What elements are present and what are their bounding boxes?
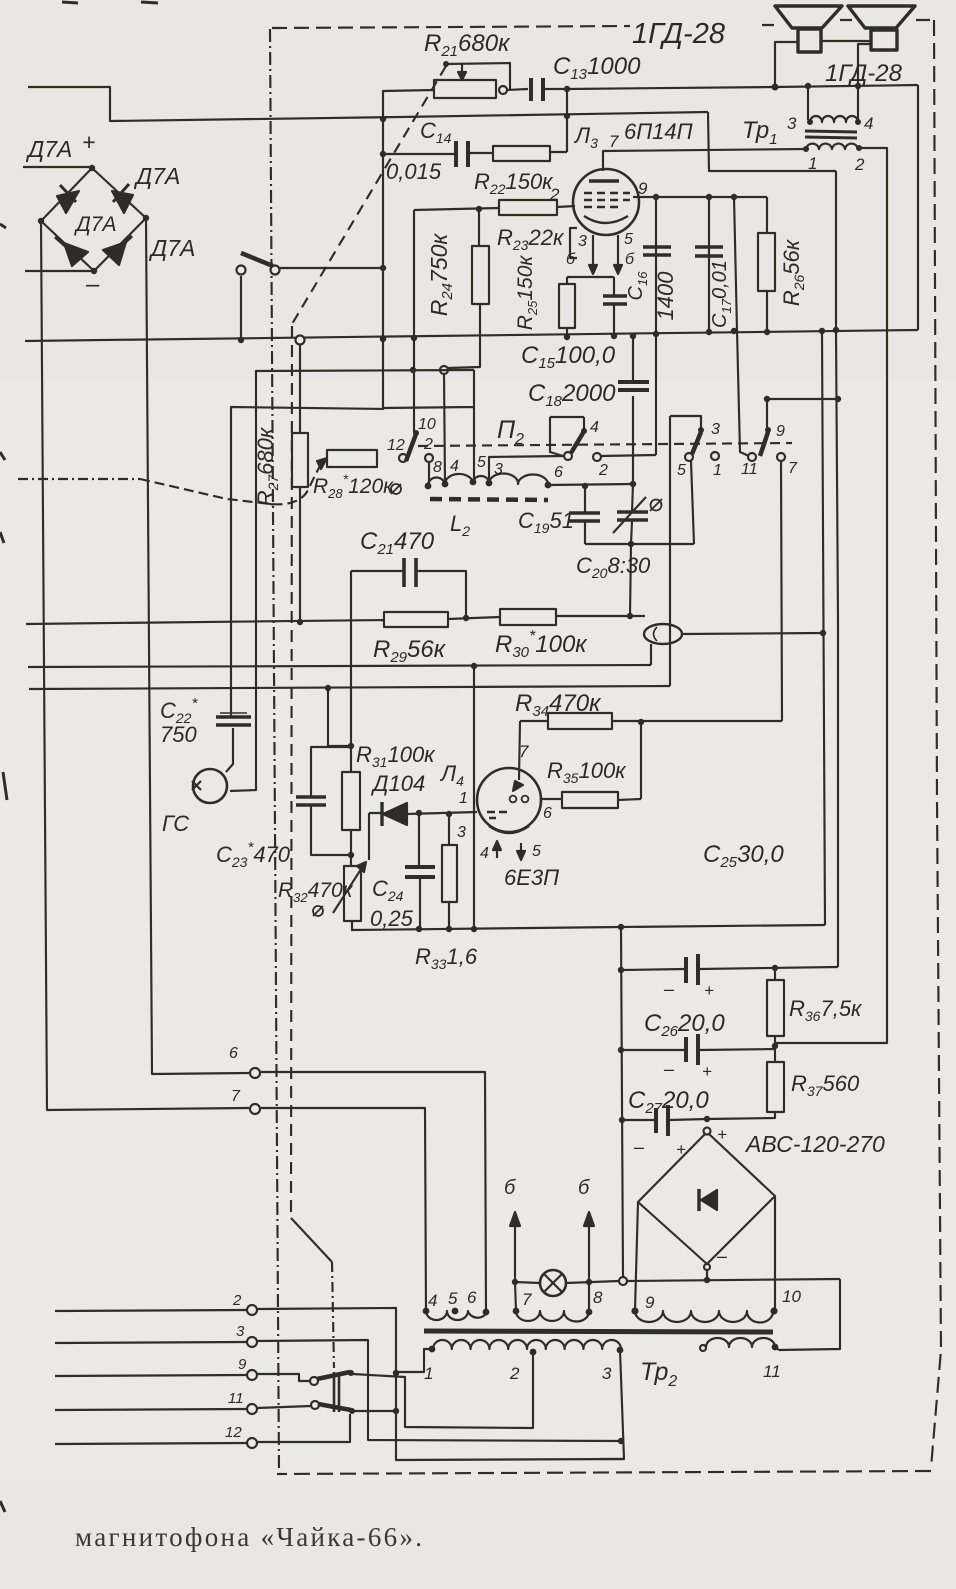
wire C14 chain	[383, 153, 456, 155]
motor switch link bars	[334, 1372, 339, 1412]
junction Tr1-3 riser on bus	[805, 83, 811, 89]
wire terminal8 riser	[588, 1281, 590, 1311]
wire contact2 to C16 column	[601, 455, 656, 456]
wire speaker2 left lead down	[858, 44, 871, 86]
terminal circle 6	[250, 1068, 260, 1078]
capacitor C16 with column to switch wire	[655, 197, 657, 455]
rotor hatch on C22	[220, 712, 247, 714]
wire lower blade to row2 drop	[352, 1410, 396, 1412]
wire grid column down to contact 10	[413, 210, 415, 432]
svg-text:+: +	[717, 1125, 727, 1144]
wire C13 to top bus	[545, 85, 918, 89]
svg-text:6: 6	[229, 1045, 238, 1062]
svg-text:10: 10	[782, 1287, 801, 1306]
wire grid column of L4	[473, 666, 475, 929]
svg-text:1: 1	[459, 790, 468, 807]
bottom row of L4 stage	[351, 927, 621, 930]
switch P2 sec3 box	[670, 416, 701, 428]
junction C18-C20 node	[630, 481, 636, 487]
resistor R36	[767, 980, 784, 1036]
junction P1 drop on row A	[238, 337, 244, 343]
L2 dashed core	[430, 499, 548, 500]
svg-text:C2620,0: C2620,0	[644, 1010, 725, 1040]
chassis dashed top border right stub	[762, 20, 934, 25]
svg-text:1: 1	[713, 462, 722, 479]
svg-text:Д7А: Д7А	[148, 235, 195, 261]
junction bridge right	[143, 215, 149, 221]
junction speaker drop on top bus	[772, 84, 779, 91]
L4 inner dashes	[487, 812, 507, 818]
junction C20 bottom	[628, 541, 634, 547]
svg-text:R2322к: R2322к	[497, 225, 565, 253]
junction C16 on row A	[653, 331, 659, 337]
terminal row 2	[55, 1310, 247, 1311]
junction L2 taps	[425, 483, 432, 490]
junction rung at 567	[564, 113, 570, 119]
resistor R37	[767, 1062, 784, 1112]
switch P2 sec3 contact 1	[711, 452, 719, 460]
svg-text:+: +	[82, 129, 95, 155]
terminal row 11	[55, 1409, 247, 1410]
svg-text:C170,01: C170,01	[709, 260, 734, 328]
junction grid column on row A	[411, 335, 417, 341]
switch P2 sec2 box	[550, 417, 584, 456]
junction B column on row A	[833, 327, 839, 333]
svg-text:–: –	[663, 979, 675, 999]
switch P2 sec1 contact 12	[399, 454, 407, 462]
junction R36 bottom node	[772, 1043, 778, 1049]
R21 wiper arm and loop	[446, 63, 510, 89]
tube L4 6E3P circle	[477, 768, 541, 832]
svg-text:3: 3	[457, 824, 466, 841]
transformer Tr2 core	[424, 1331, 773, 1332]
motor switch lower blade	[311, 1401, 319, 1409]
mech dashed link to R28 trimmer	[140, 464, 321, 504]
switch P1 mains right contact	[271, 266, 280, 275]
switch P2 sec1 contact 8	[425, 454, 433, 462]
diode D7A top-right	[112, 191, 133, 213]
svg-text:11: 11	[228, 1390, 244, 1407]
svg-text:ГС: ГС	[162, 811, 189, 836]
mech dash-dot link to motor switch	[332, 1262, 334, 1368]
junction on column A	[820, 630, 826, 636]
svg-text:R37560: R37560	[791, 1071, 860, 1099]
wire R24 bottom to contact 4 circle	[448, 304, 480, 368]
svg-text:б: б	[578, 1177, 590, 1199]
wire contact7 down to R34 row	[781, 461, 782, 721]
junction C17 top	[706, 194, 712, 200]
switch P2 sec2 contact 6	[564, 452, 572, 460]
junction row A on R21 column	[380, 336, 386, 342]
L3 pin5 lead arrow	[617, 235, 619, 268]
row A main horizontal bus	[25, 330, 918, 341]
mech link diagonal to motor switch	[291, 1218, 332, 1262]
capacitor C14	[456, 141, 468, 167]
selenium bridge ABC-120-270	[704, 1128, 711, 1135]
wire R32 wiper to D104	[368, 813, 370, 860]
GS cross mark	[192, 781, 201, 790]
svg-text:5: 5	[677, 462, 686, 479]
diode D7A bottom-left	[64, 243, 88, 266]
svg-text:3: 3	[578, 233, 587, 250]
svg-text:C2530,0: C2530,0	[703, 841, 784, 871]
svg-text:2: 2	[598, 462, 608, 479]
svg-text:6: 6	[467, 1288, 477, 1307]
wire L2 tap3 to sec2 contact 6	[489, 456, 564, 483]
row B horizontal	[28, 665, 651, 667]
junction C17 on row A	[706, 329, 712, 335]
L3 cathode arc	[584, 216, 628, 223]
transformer Tr1 secondary coil 3-4	[810, 116, 858, 122]
switch P2 sec4 jog to B column	[767, 399, 838, 429]
filament arrow b left	[514, 1224, 516, 1282]
wire rung corner down to screen rung	[708, 112, 836, 171]
svg-text:Д7А: Д7А	[74, 213, 116, 236]
svg-text:R2656к: R2656к	[779, 238, 807, 306]
arrowhead into R28	[317, 458, 327, 469]
junction C13 node	[564, 86, 570, 92]
svg-text:R2956к: R2956к	[373, 636, 447, 666]
wire Tr1 terminal4 riser	[857, 86, 859, 120]
wire GS line y370	[256, 370, 474, 371]
wire D104 to L4 grid	[369, 812, 477, 814]
resistor R32 trimmer	[344, 866, 361, 921]
loudspeaker 1 magnet box	[798, 29, 821, 52]
svg-text:4: 4	[450, 458, 459, 475]
svg-text:R35100к: R35100к	[547, 758, 627, 786]
svg-text:R22150к: R22150к	[474, 169, 554, 197]
svg-text:1: 1	[424, 1364, 433, 1383]
svg-text:2: 2	[423, 436, 433, 453]
wire C22 bottom to GS	[226, 728, 233, 772]
junction C19 top	[582, 483, 588, 489]
svg-text:АВС-120-270: АВС-120-270	[744, 1131, 885, 1157]
junction R27 bottom on R29 row	[297, 619, 303, 625]
junction C14 on R21 column	[380, 151, 386, 157]
wire C21 left down to R31	[350, 571, 352, 746]
svg-text:C15100,0: C15100,0	[521, 342, 616, 372]
switch P2 sec4 blade	[760, 432, 768, 456]
wire contact5 drop	[691, 461, 694, 544]
chassis dashed bottom border	[277, 1471, 931, 1474]
wire bridge minus row	[25, 270, 94, 272]
switch P2 sec3 contact 5	[685, 453, 693, 461]
svg-text:3: 3	[236, 1323, 245, 1340]
wire R21 to C13	[507, 89, 528, 90]
wire terminal 6 row right to Tr2 terminal 6	[261, 1072, 486, 1313]
chassis dash-dot boundary left vertical	[270, 29, 279, 1472]
svg-text:7: 7	[231, 1088, 241, 1105]
wire filament loop to winding 11	[779, 1279, 840, 1350]
R32 adjuster mark	[313, 906, 323, 916]
bridge minus terminal	[704, 1264, 710, 1270]
svg-text:C2720,0: C2720,0	[628, 1087, 709, 1117]
wire P1 right contact to R21 column	[280, 267, 383, 269]
svg-text:R28*120к: R28*120к	[313, 471, 394, 501]
R21 wiper dot	[443, 61, 449, 67]
lamp	[540, 1270, 566, 1296]
wire Tr2 terminal2 to motor switch	[353, 1352, 533, 1428]
svg-text:C23*470: C23*470	[216, 839, 291, 870]
svg-text:Д7А: Д7А	[133, 163, 180, 189]
wire C13 node down to C14 chain	[566, 89, 568, 152]
junction R31-R32	[348, 852, 354, 858]
svg-text:C208:30: C208:30	[576, 553, 651, 581]
wire L4 pin6 to R35	[541, 798, 562, 800]
svg-text:+: +	[702, 1062, 712, 1081]
filament row with lamp	[515, 1279, 840, 1283]
svg-text:Д104: Д104	[370, 771, 425, 796]
terminal circle R21 right	[499, 86, 507, 94]
L3 anode bar	[589, 179, 619, 182]
terminal circle above contact 4	[440, 366, 448, 374]
resistor R25	[559, 284, 575, 328]
capacitor C22 plates	[216, 717, 251, 725]
wire bridge right vertex to Tr2 terminal 10	[774, 1196, 776, 1310]
filter column vertical	[621, 927, 623, 1277]
switch P2 sec4 contact 7	[777, 453, 785, 461]
svg-text:4: 4	[864, 114, 873, 133]
bracket lower of jack	[650, 644, 652, 665]
junction sp2 lead on bus	[855, 83, 861, 89]
wire R23 left to R24 node	[414, 208, 499, 210]
resistor R35	[562, 792, 618, 808]
svg-text:8: 8	[593, 1288, 603, 1307]
svg-text:7: 7	[609, 132, 619, 151]
svg-text:0,015: 0,015	[386, 159, 442, 184]
loudspeaker 2 magnet box	[871, 30, 897, 50]
resistor R34	[548, 713, 612, 729]
svg-text:6: 6	[543, 805, 552, 822]
svg-text:0,25: 0,25	[370, 906, 414, 931]
L3 grid dashes	[584, 192, 630, 195]
svg-text:5: 5	[477, 454, 486, 471]
wire L2 right row to C18 column	[548, 484, 633, 485]
junction R33 top	[446, 811, 452, 817]
svg-text:C131000: C131000	[553, 53, 641, 83]
svg-text:3: 3	[787, 114, 797, 133]
svg-text:1ГД-28: 1ГД-28	[825, 60, 903, 87]
svg-text:C21470: C21470	[360, 528, 435, 558]
wire bridge top row	[23, 166, 91, 168]
svg-text:11: 11	[741, 461, 758, 478]
svg-text:б: б	[625, 251, 635, 268]
junction R25 on row A	[564, 334, 570, 340]
resistor R27	[292, 433, 308, 487]
svg-text:магнитофона «Чайка-66».: магнитофона «Чайка-66».	[75, 1522, 424, 1552]
svg-text:7: 7	[788, 460, 798, 477]
resistor R31	[342, 772, 360, 830]
R32 wiper arrow	[333, 866, 363, 913]
Tr2 winding 9-10	[635, 1311, 773, 1323]
svg-text:8: 8	[433, 459, 442, 476]
capacitor C15	[613, 277, 615, 336]
wire jack to column A	[682, 633, 823, 634]
Tr2 winding 7-8	[516, 1311, 589, 1322]
switch P2 sec2 blade	[571, 433, 583, 453]
junction bridge left	[38, 218, 44, 224]
svg-text:2: 2	[549, 185, 560, 204]
resistor R23	[499, 200, 557, 215]
svg-text:R30*100к: R30*100к	[495, 628, 588, 661]
filament arrow b right	[588, 1224, 590, 1281]
capacitor C23 bridging R31	[311, 747, 351, 855]
svg-text:7: 7	[522, 1290, 532, 1309]
wire row C up to P2 sec3	[669, 416, 671, 686]
diode D7A bottom-right	[103, 242, 126, 265]
svg-text:–: –	[663, 1059, 675, 1079]
L3 anode wire to Tr1 primary 1	[603, 149, 806, 171]
svg-text:4: 4	[428, 1291, 437, 1310]
chassis dashed top border	[272, 26, 630, 28]
switch P2 dashed mechanical row	[418, 443, 792, 446]
svg-text:5: 5	[624, 231, 633, 248]
potentiometer R21	[434, 80, 496, 98]
junction on row C	[325, 685, 331, 691]
svg-text:R367,5к: R367,5к	[789, 996, 863, 1024]
wire terminal 7 row right to Tr2 terminal 4	[261, 1108, 426, 1313]
scan artifact top edge marks	[62, 2, 158, 3]
junction rung on R21 column	[380, 116, 386, 122]
junction R24 top	[476, 206, 482, 212]
resistor R24	[472, 246, 489, 304]
wire Tr2 terminal1 loop	[397, 1349, 432, 1372]
junction C20 drop at R30 node	[627, 613, 633, 619]
terminal circle 7	[250, 1104, 260, 1114]
junction contact11 column on row A	[731, 328, 737, 334]
head symbol GS circle	[193, 769, 227, 803]
svg-text:R27680к: R27680к	[253, 426, 281, 506]
svg-text:6Е3П: 6Е3П	[504, 865, 559, 890]
svg-text:1: 1	[808, 154, 817, 173]
capacitor C17 with column	[708, 197, 710, 331]
capacitor C19	[584, 486, 586, 544]
switch P2 sec3 blade	[692, 432, 701, 454]
motor switch upper blade	[310, 1377, 318, 1385]
junction R36 top	[772, 965, 778, 971]
wire contact 8 to L2	[428, 462, 430, 486]
svg-text:9: 9	[776, 423, 785, 440]
L4 target circles	[510, 796, 517, 803]
C20 arrow slash	[613, 497, 646, 533]
wire P1 left contact to row A	[240, 276, 242, 340]
svg-text:12: 12	[387, 437, 405, 454]
column A vertical	[822, 331, 825, 925]
rectifier bridge D7A diamond	[41, 168, 146, 271]
svg-text:–: –	[85, 271, 100, 298]
wire R22 right	[550, 151, 567, 153]
terminal row 9	[55, 1375, 247, 1376]
terminal circle on filament row	[619, 1277, 627, 1285]
loudspeaker 2 horn	[848, 6, 915, 28]
wire R35 right to R34 drop	[618, 722, 641, 800]
row C horizontal	[29, 686, 670, 689]
junction terminal8 riser	[586, 1279, 592, 1285]
svg-text:C182000: C182000	[528, 380, 616, 410]
junction C15 on row A	[611, 333, 617, 339]
svg-text:3: 3	[494, 461, 503, 478]
resistor R29	[384, 612, 448, 627]
L4 pin4 arrow up	[496, 846, 498, 858]
resistor R26	[758, 233, 775, 291]
svg-text:–: –	[633, 1137, 645, 1157]
junction R35 drop on R34 row	[638, 719, 644, 725]
wire bridge left vertex to Tr2 terminal 9	[635, 1202, 638, 1310]
pin3 bracket of L3	[570, 228, 577, 258]
junction row3 loop on terminal3 riser	[618, 1438, 624, 1444]
switch P2 sec1 blade 12-10	[406, 434, 416, 461]
wire terminal7 riser	[515, 1282, 516, 1311]
svg-text:7: 7	[519, 742, 529, 761]
wire Tr1 terminal3 riser	[807, 87, 809, 120]
Tr2 primary winding 1-2-3	[433, 1340, 621, 1349]
junction C24 top	[416, 810, 422, 816]
junction grid column on row B	[471, 663, 477, 669]
capacitor C21 loop over R29	[351, 571, 466, 618]
junction P1 wire on R21 column	[380, 265, 386, 271]
junction R26 on row A	[764, 329, 770, 335]
junction terminal7 riser	[512, 1279, 518, 1285]
scan artifact left edge marks	[0, 224, 7, 1512]
svg-text:2: 2	[232, 1292, 242, 1309]
wire between speakers	[821, 40, 871, 42]
wire C20 bottom to R30 node	[630, 544, 631, 616]
L4 pin5 arrow down	[520, 843, 522, 855]
svg-text:12: 12	[225, 1424, 242, 1441]
transformer Tr1 core	[805, 131, 857, 138]
switch P2 sec4 contact 11	[748, 453, 756, 461]
junction bridge bottom	[91, 268, 97, 274]
capacitor C18 with column	[632, 338, 634, 484]
svg-text:2: 2	[854, 155, 865, 174]
junction C21 right	[463, 615, 469, 621]
svg-text:б: б	[566, 251, 576, 268]
R28 adjuster mark	[391, 484, 401, 494]
L3 pin3 lead arrow	[592, 235, 594, 268]
switch P1 mains left contact	[237, 266, 246, 275]
capacitor C13	[531, 78, 543, 101]
svg-text:–: –	[716, 1246, 728, 1266]
wire R29 to R30	[448, 617, 500, 619]
junction R31 top	[348, 743, 354, 749]
row R29 long horizontal	[26, 620, 384, 624]
junction column A top on row A	[819, 328, 825, 334]
svg-text:4: 4	[480, 845, 489, 862]
capacitor C27 electrolytic	[622, 1119, 707, 1120]
junction C16 top	[653, 194, 659, 200]
wire R30 right to jack	[556, 615, 645, 617]
svg-text:R31100к: R31100к	[356, 742, 436, 770]
Tr2 winding 4-5-6	[426, 1311, 487, 1320]
capacitor C24	[419, 813, 420, 929]
terminal circle mains on row A	[296, 336, 305, 345]
wire long vertical B from rung to C25 row	[836, 171, 838, 967]
svg-text:3: 3	[602, 1364, 612, 1383]
Tr2 winding 11	[706, 1338, 775, 1347]
L4 pin7 wire with arrow	[519, 721, 520, 780]
wire R23 to tube grid	[557, 206, 575, 207]
wire right vertical from top wire corner to row A	[917, 85, 919, 330]
jack oval	[644, 624, 682, 644]
cathode network bracket of L3	[567, 276, 614, 278]
svg-text:R32470к: R32470к	[278, 879, 354, 905]
mech dashed vertical link	[291, 326, 292, 1218]
svg-text:Д7А: Д7А	[25, 136, 72, 162]
svg-text:11: 11	[763, 1362, 781, 1381]
svg-text:R25150к: R25150к	[514, 255, 540, 331]
wire top-left step to R21 rung	[28, 87, 708, 121]
svg-text:3: 3	[711, 421, 720, 438]
